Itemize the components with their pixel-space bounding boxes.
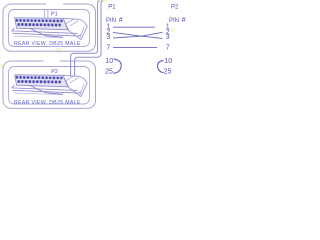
svg-text:PIN #: PIN # [169, 17, 186, 24]
svg-text:25: 25 [164, 68, 172, 75]
svg-text:25: 25 [105, 68, 113, 75]
svg-text:P2: P2 [51, 69, 58, 75]
svg-text:3: 3 [166, 34, 170, 41]
svg-text:REAR VIEW, DB25 MALE: REAR VIEW, DB25 MALE [14, 41, 81, 47]
svg-text:P1: P1 [108, 4, 116, 10]
svg-text:REAR VIEW, DB25 MALE: REAR VIEW, DB25 MALE [14, 100, 81, 106]
svg-text:P2: P2 [171, 4, 179, 10]
svg-text:10: 10 [164, 58, 172, 65]
svg-text:7: 7 [166, 44, 170, 51]
svg-text:3: 3 [106, 34, 110, 41]
svg-text:10: 10 [105, 58, 113, 65]
svg-text:P1: P1 [51, 12, 58, 18]
svg-text:7: 7 [106, 44, 110, 51]
